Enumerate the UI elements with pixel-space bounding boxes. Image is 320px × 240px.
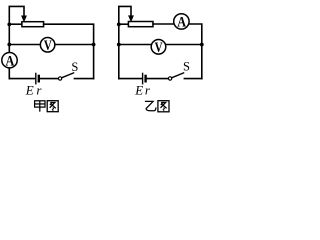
wire: ammeter to top-right corner, down right rail (乙) (188, 24, 202, 79)
node E: junction dot left-middle (乙) (117, 43, 121, 47)
wire: top rail left segment (甲) node A to rheostat (9, 23, 22, 25)
wire: voltmeter branch (甲) (9, 44, 93, 46)
wire: left vertical rail (甲), node A to bottom-left corner (8, 24, 10, 78)
wire: slider tap bracket (乙) (119, 6, 131, 24)
switch S (甲): blade (62, 73, 74, 78)
svg-text:E: E (134, 83, 143, 98)
wire: voltmeter branch (乙) (119, 44, 202, 46)
svg-text:S: S (183, 59, 190, 73)
svg-text:A: A (177, 14, 186, 30)
wire: top rail left segment (乙) node D to rheostat (119, 23, 129, 25)
switch S2 (乙): pivot circle (168, 77, 171, 80)
voltmeter U4 circle (乙) (151, 40, 166, 55)
node B: junction dot left-middle (甲) (7, 43, 11, 47)
node A: junction dot top-left (甲) (7, 23, 11, 27)
svg-text:V: V (155, 39, 164, 55)
svg-text:E: E (25, 83, 34, 98)
battery E r (乙): long plate (142, 73, 144, 83)
wire: bottom rail left (乙) (119, 78, 142, 80)
wire: switch to bottom-right corner (乙) (184, 78, 201, 80)
svg-text:A: A (6, 52, 15, 68)
switch S2 (乙): blade (172, 73, 184, 78)
caption 甲图 : glyph 图 (drawn) (47, 101, 58, 112)
wire: battery to switch (甲) (40, 78, 58, 80)
caption 甲图 : glyph 甲 (drawn) (35, 101, 45, 112)
rheostat R1 body (甲) (22, 22, 44, 27)
svg-text:V: V (44, 37, 53, 53)
battery E r (乙): short thick plate (144, 76, 146, 81)
caption 乙图 : glyph 图 (drawn) (158, 101, 169, 112)
wire: rheostat to ammeter (乙) (153, 23, 175, 25)
wire: left vertical rail (乙) (118, 24, 120, 78)
wire: top rail right segment (甲) rheostat to top-right corner, down right rail (44, 24, 94, 78)
ammeter U3 circle (乙) (174, 14, 189, 29)
battery E r (甲): short thick plate (38, 76, 40, 81)
ammeter U1 circle (甲) (2, 53, 17, 68)
caption 乙图 : glyph 乙 (drawn) (145, 101, 156, 110)
wire: switch to bottom-right corner (甲) (74, 78, 93, 80)
voltmeter U2 circle (甲) (40, 38, 55, 53)
rheostat R1 slider arrow (甲) (22, 16, 27, 21)
node D: junction dot top-left (乙) (117, 23, 121, 27)
wire: battery to switch (乙) (147, 78, 168, 80)
battery E r (甲): long plate (35, 73, 37, 83)
node C: junction dot right-middle (甲) (92, 43, 96, 47)
wire: bottom rail left (甲) ammeter to battery (10, 78, 36, 80)
svg-text:S: S (71, 60, 78, 74)
wire: slider tap bracket (甲) up from node A, across, down to arrow (9, 6, 24, 24)
switch S (甲): pivot circle (58, 77, 61, 80)
rheostat R2 slider arrow (乙) (129, 16, 134, 21)
rheostat R2 body (乙) (128, 22, 153, 27)
node F: junction dot right-middle (乙) (200, 43, 204, 47)
